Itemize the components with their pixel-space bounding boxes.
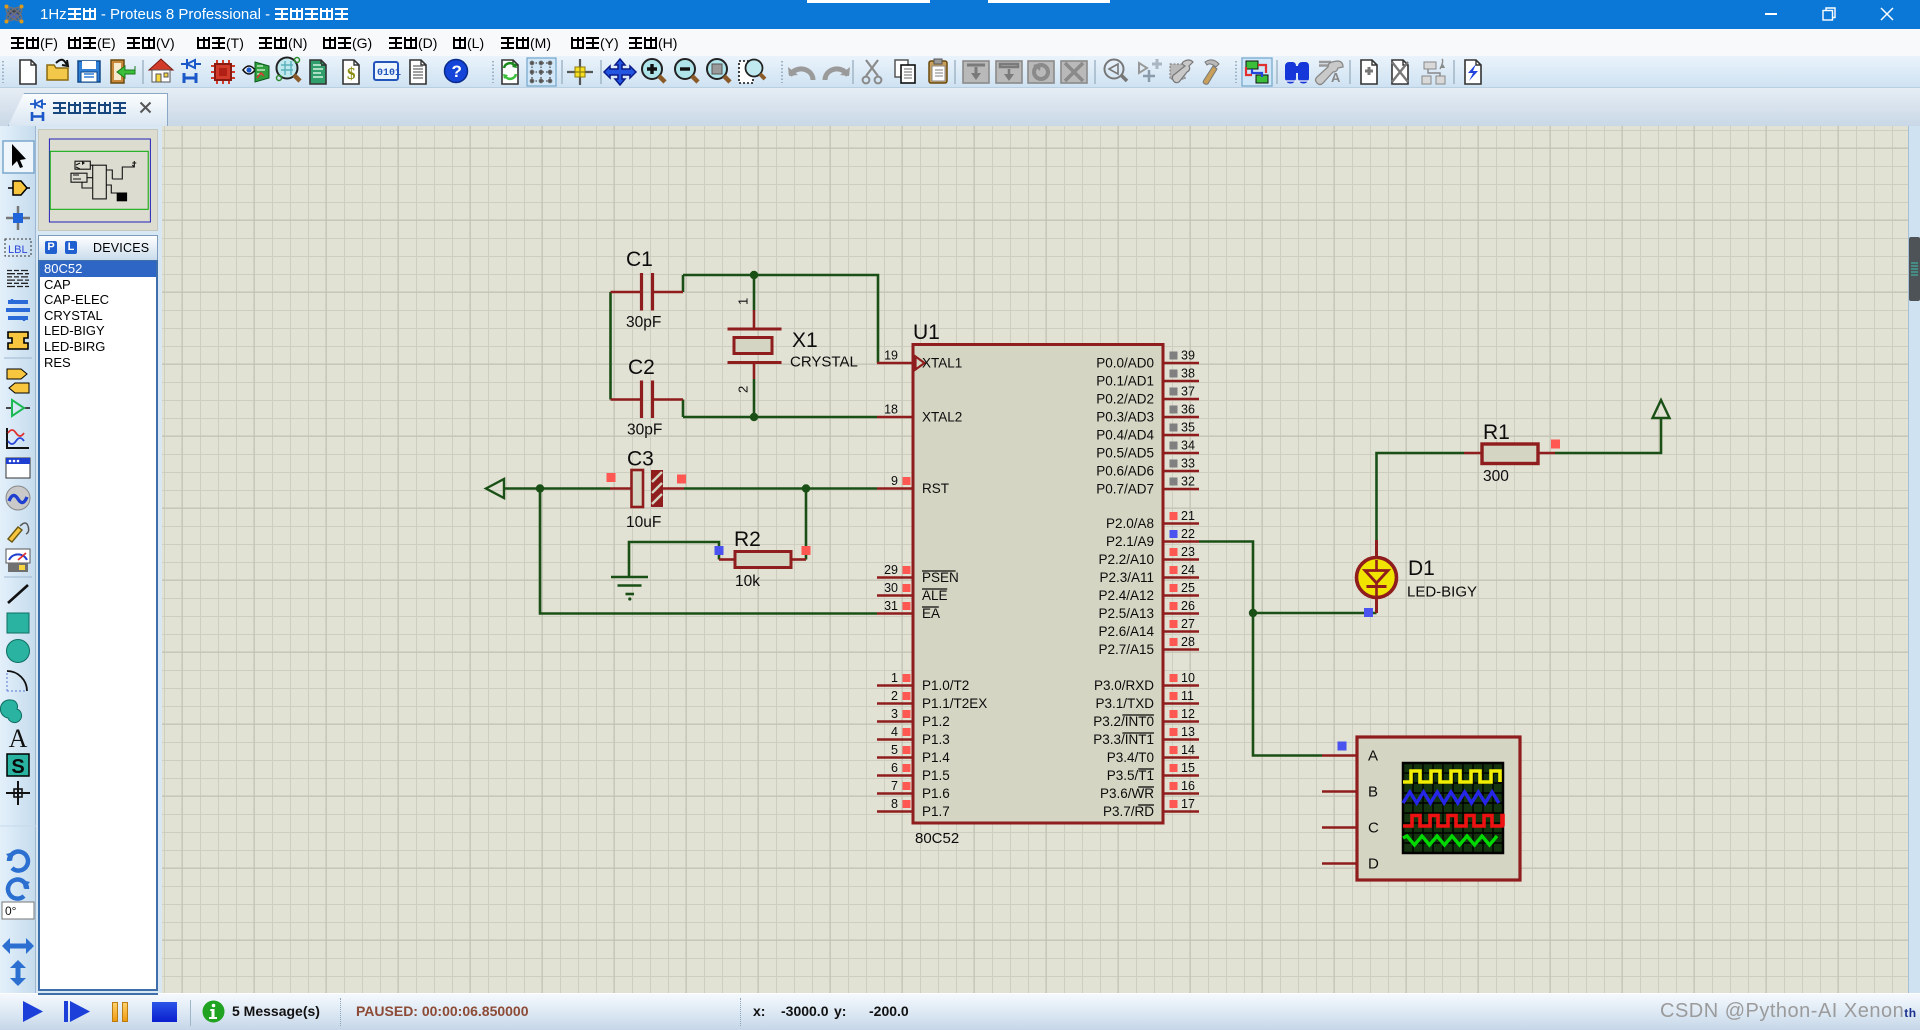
node RST net left junction (536, 484, 544, 492)
svg-text:21: 21 (1181, 509, 1195, 523)
svg-text:P1.2: P1.2 (922, 714, 950, 729)
pin-state square LED cathode (blue) (1364, 608, 1373, 617)
waveform channel B (blue wave) (1403, 792, 1499, 803)
IC U1 80C52 (913, 345, 1163, 824)
svg-text:36: 36 (1181, 403, 1195, 417)
svg-text:30pF: 30pF (627, 422, 662, 439)
svg-text:LED-BIGY: LED-BIGY (1407, 584, 1477, 601)
svg-text:P3.3/INT1: P3.3/INT1 (1093, 732, 1154, 747)
svg-text:13: 13 (1181, 725, 1195, 739)
svg-text:P2.2/A10: P2.2/A10 (1098, 552, 1154, 567)
svg-text:P2.3/A11: P2.3/A11 (1099, 570, 1154, 585)
capacitor C3 (electrolytic) (610, 487, 632, 490)
svg-text:A: A (1331, 70, 1341, 85)
svg-text:P2.4/A12: P2.4/A12 (1098, 588, 1154, 603)
pin 21 (P2.0/A8) right (1163, 522, 1199, 525)
pin 9 (RST) left (877, 487, 913, 490)
pin-state square scope A (blue) (1338, 742, 1347, 751)
pin 8 (P1.7) left (877, 810, 913, 813)
pin 16 (P3.6/WR) right (1163, 792, 1199, 795)
pin 26 (P2.5/A13) right (1163, 612, 1199, 615)
svg-text:RST: RST (922, 481, 949, 496)
svg-text:LBL: LBL (8, 244, 28, 256)
node RST-R2 junction (802, 484, 810, 492)
pin 1 (P1.0/T2) left (877, 684, 913, 687)
svg-text:P3.1/TXD: P3.1/TXD (1095, 696, 1154, 711)
clock input marker XTAL1 (916, 357, 925, 370)
pin 27 (P2.6/A14) right (1163, 630, 1199, 633)
svg-text:30: 30 (884, 581, 898, 595)
svg-text:P1.0/T2: P1.0/T2 (922, 678, 969, 693)
svg-text:PSEN: PSEN (922, 570, 959, 585)
svg-text:P2.1/A9: P2.1/A9 (1106, 534, 1154, 549)
MENU BAR (0, 29, 1920, 56)
waveform channel C (red square) (1403, 816, 1503, 827)
pin 25 (P2.4/A12) right (1163, 594, 1199, 597)
svg-text:2: 2 (891, 689, 898, 703)
svg-text:35: 35 (1181, 421, 1195, 435)
wire crystal pin2 (753, 379, 756, 417)
oscilloscope body (1357, 737, 1520, 880)
pin 33 (P0.6/AD6) right (1163, 470, 1199, 473)
svg-text:P0.7/AD7: P0.7/AD7 (1096, 482, 1154, 497)
svg-text:X1: X1 (792, 329, 818, 352)
svg-text:U1: U1 (913, 321, 940, 344)
svg-text:P0.1/AD1: P0.1/AD1 (1096, 374, 1154, 389)
pin 3 (P1.2) left (877, 720, 913, 723)
pin 30 (ALE) left (877, 594, 913, 597)
svg-text:17: 17 (1181, 797, 1195, 811)
pin-state square C3 right (677, 475, 686, 484)
svg-text:P3.0/RXD: P3.0/RXD (1094, 678, 1154, 693)
svg-text:38: 38 (1181, 367, 1195, 381)
scope screen (1403, 763, 1503, 853)
svg-text:5: 5 (891, 743, 898, 757)
svg-text:C: C (1368, 820, 1379, 837)
crystal X1 (753, 310, 756, 329)
wire junction to LED cathode (1253, 612, 1377, 615)
svg-text:C2: C2 (628, 356, 655, 379)
svg-text:P3.5/T1: P3.5/T1 (1107, 768, 1154, 783)
pin 23 (P2.2/A10) right (1163, 558, 1199, 561)
svg-text:8: 8 (891, 797, 898, 811)
scope pin C stub (1322, 826, 1357, 829)
pin-state square C3 left (607, 473, 616, 482)
pin 22 (P2.1/A9) right (1163, 540, 1199, 543)
svg-text:34: 34 (1181, 439, 1195, 453)
capacitor C2 (611, 398, 641, 401)
svg-text:0101: 0101 (377, 68, 401, 79)
svg-text:30pF: 30pF (626, 314, 661, 331)
svg-text:P0.4/AD4: P0.4/AD4 (1096, 428, 1154, 443)
wire junction down to R2 (805, 489, 808, 560)
svg-text:P1.7: P1.7 (922, 804, 950, 819)
svg-text:0°: 0° (5, 904, 17, 918)
pin 18 (XTAL2) left (877, 416, 913, 419)
pin 7 (P1.6) left (877, 792, 913, 795)
pin-state square R2 left (blue) (715, 546, 724, 555)
svg-text:R2: R2 (734, 528, 761, 551)
waveform channel D (green wave) (1403, 836, 1497, 845)
ground (611, 576, 648, 579)
svg-text:P1.4: P1.4 (922, 750, 950, 765)
svg-text:P1.1/T2EX: P1.1/T2EX (922, 696, 987, 711)
pin 37 (P0.2/AD2) right (1163, 398, 1199, 401)
pin 39 (P0.0/AD0) right (1163, 362, 1199, 365)
pin 6 (P1.5) left (877, 774, 913, 777)
TOOLBAR (0, 56, 1920, 88)
pin 5 (P1.4) left (877, 756, 913, 759)
pin 10 (P3.0/RXD) right (1163, 684, 1199, 687)
svg-text:2: 2 (736, 386, 751, 393)
terminal RST left (default) (486, 479, 504, 498)
svg-text:P1.6: P1.6 (922, 786, 950, 801)
pin 31 (EA) left (877, 612, 913, 615)
svg-text:P2.5/A13: P2.5/A13 (1098, 606, 1154, 621)
svg-text:32: 32 (1181, 475, 1195, 489)
svg-text:6: 6 (891, 761, 898, 775)
wire top rail to XTAL1 (683, 275, 878, 363)
svg-text:?: ? (452, 62, 462, 81)
svg-text:300: 300 (1483, 468, 1509, 485)
svg-text:23: 23 (1181, 545, 1195, 559)
svg-text:16: 16 (1181, 779, 1195, 793)
pin 15 (P3.5/T1) right (1163, 774, 1199, 777)
STATUS BAR (0, 993, 1920, 1030)
wire EA net: left junction down and across (540, 489, 877, 614)
pin 28 (P2.7/A15) right (1163, 648, 1199, 651)
scope pin B stub (1322, 790, 1357, 793)
svg-text:3: 3 (891, 707, 898, 721)
pin 35 (P0.4/AD4) right (1163, 434, 1199, 437)
svg-text:11: 11 (1181, 689, 1194, 703)
svg-text:$: $ (347, 64, 356, 83)
capacitor C1 (611, 291, 641, 294)
svg-text:39: 39 (1181, 349, 1195, 363)
svg-text:C1: C1 (626, 248, 653, 271)
pin 17 (P3.7/RD) right (1163, 810, 1199, 813)
svg-text:31: 31 (884, 599, 898, 613)
svg-text:37: 37 (1181, 385, 1195, 399)
pin 38 (P0.1/AD1) right (1163, 380, 1199, 383)
svg-text:EA: EA (922, 606, 940, 621)
svg-text:10: 10 (1181, 671, 1195, 685)
LED D1 (1375, 540, 1378, 558)
resistor R1 (1464, 452, 1482, 455)
scope pin A stub (1322, 754, 1357, 757)
svg-text:P3.2/INT0: P3.2/INT0 (1093, 714, 1154, 729)
svg-text:15: 15 (1181, 761, 1195, 775)
wire junction down to scope channel A (1253, 613, 1322, 756)
pin 11 (P3.1/TXD) right (1163, 702, 1199, 705)
power terminal (up arrow) (1653, 400, 1670, 418)
node LED-scope junction (1249, 609, 1257, 617)
svg-text:P0.6/AD6: P0.6/AD6 (1096, 464, 1154, 479)
svg-text:25: 25 (1181, 581, 1195, 595)
wire C2 right to bottom rail (682, 400, 685, 418)
MAIN (0, 126, 36, 993)
svg-text:80C52: 80C52 (915, 830, 959, 847)
TAB BAR (0, 88, 1920, 126)
pin 34 (P0.5/AD5) right (1163, 452, 1199, 455)
svg-text:A: A (1368, 748, 1378, 765)
scope pin D stub (1322, 862, 1357, 865)
pin 12 (P3.2/INT0) right (1163, 720, 1199, 723)
svg-text:10k: 10k (735, 573, 760, 590)
svg-text:D: D (1368, 856, 1379, 873)
svg-text:XTAL1: XTAL1 (922, 356, 962, 371)
svg-text:27: 27 (1181, 617, 1195, 631)
svg-text:P3.4/T0: P3.4/T0 (1107, 750, 1154, 765)
svg-text:A: A (9, 724, 28, 753)
wire R2 left to ground (629, 542, 719, 577)
pin 2 (P1.1/T2EX) left (877, 702, 913, 705)
pin 13 (P3.3/INT1) right (1163, 738, 1199, 741)
pin 36 (P0.3/AD3) right (1163, 416, 1199, 419)
svg-text:P3.7/RD: P3.7/RD (1103, 804, 1154, 819)
wire R1 right to power (1555, 418, 1661, 453)
svg-text:P1.5: P1.5 (922, 768, 950, 783)
pin 4 (P1.3) left (877, 738, 913, 741)
wire P2.1 to LED net (1199, 542, 1253, 614)
svg-text:28: 28 (1181, 635, 1195, 649)
svg-text:1: 1 (736, 298, 751, 305)
svg-text:P2.6/A14: P2.6/A14 (1098, 624, 1154, 639)
svg-text:P3.6/WR: P3.6/WR (1100, 786, 1154, 801)
svg-text:7: 7 (891, 779, 898, 793)
node crystal pin1 junction (750, 271, 758, 279)
svg-text:P0.0/AD0: P0.0/AD0 (1096, 356, 1154, 371)
wire C3 to RST pin (684, 487, 877, 490)
svg-text:P0.2/AD2: P0.2/AD2 (1096, 392, 1154, 407)
wire bottom rail to XTAL2 (683, 416, 877, 419)
wire terminal to C3 (504, 487, 610, 490)
pin 14 (P3.4/T0) right (1163, 756, 1199, 759)
svg-text:4: 4 (891, 725, 898, 739)
TITLE BAR (0, 0, 1920, 29)
svg-text:P0.5/AD5: P0.5/AD5 (1096, 446, 1154, 461)
node crystal pin2 junction (750, 413, 758, 421)
svg-text:10uF: 10uF (626, 514, 661, 531)
resistor R2 (719, 558, 735, 561)
svg-text:ALE: ALE (922, 588, 948, 603)
pin 29 (PSEN) left (877, 576, 913, 579)
svg-text:22: 22 (1181, 527, 1195, 541)
svg-text:P2.0/A8: P2.0/A8 (1106, 516, 1154, 531)
svg-text:12: 12 (1181, 707, 1195, 721)
wire C1-C2 left vertical (609, 292, 612, 400)
pin-state square R1 right (1551, 440, 1560, 449)
svg-text:P1.3: P1.3 (922, 732, 950, 747)
svg-text:18: 18 (884, 403, 898, 417)
svg-text:P2.7/A15: P2.7/A15 (1098, 642, 1154, 657)
svg-text:26: 26 (1181, 599, 1195, 613)
svg-text:CRYSTAL: CRYSTAL (790, 354, 858, 371)
svg-text:R1: R1 (1483, 421, 1510, 444)
svg-text:14: 14 (1181, 743, 1195, 757)
wire LED anode up to R1 (1377, 453, 1465, 540)
svg-text:24: 24 (1181, 563, 1195, 577)
wire C1 right to top rail (682, 275, 685, 292)
svg-text:19: 19 (884, 349, 898, 363)
svg-text:P0.3/AD3: P0.3/AD3 (1096, 410, 1154, 425)
waveform channel A (yellow square) (1403, 771, 1500, 782)
svg-text:XTAL2: XTAL2 (922, 410, 962, 425)
svg-text:9: 9 (891, 474, 898, 488)
svg-text:B: B (1368, 784, 1378, 801)
pin-state square R2 right (802, 546, 811, 555)
svg-text:1: 1 (891, 671, 898, 685)
svg-text:29: 29 (884, 563, 898, 577)
pin 24 (P2.3/A11) right (1163, 576, 1199, 579)
svg-text:D1: D1 (1408, 557, 1435, 580)
pin 32 (P0.7/AD7) right (1163, 488, 1199, 491)
svg-text:C3: C3 (627, 448, 654, 471)
svg-text:33: 33 (1181, 457, 1195, 471)
wire crystal pin1 (753, 275, 756, 310)
svg-text:S: S (11, 756, 24, 778)
pin 19 (XTAL1) left (877, 362, 913, 365)
